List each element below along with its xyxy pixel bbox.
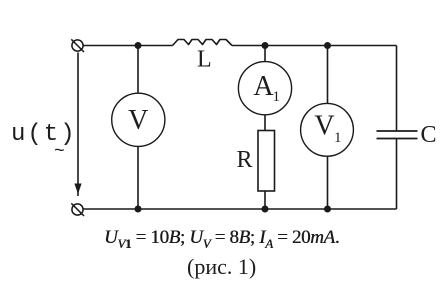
wire right edge upper (396, 46, 398, 132)
node C1 (top of V1 branch) (324, 42, 331, 49)
wire V1 branch lower (327, 156, 329, 209)
svg-text:R: R (237, 147, 253, 173)
label u(t) source voltage (11, 121, 77, 148)
capacitor C (377, 131, 418, 139)
svg-text:L: L (197, 47, 212, 73)
node A (top of V branch) (135, 42, 142, 49)
wire top: inductor to right corner (232, 45, 397, 47)
svg-text:V: V (128, 105, 148, 136)
node E (bottom of R branch) (262, 206, 269, 213)
wire bottom (83, 208, 396, 210)
wire A1 to resistor (264, 115, 266, 131)
node D (bottom of V branch) (135, 206, 142, 213)
terminal top-left (71, 39, 84, 52)
voltmeter V (112, 93, 165, 146)
svg-text:V: V (314, 111, 334, 142)
label tilde (AC) (54, 142, 65, 162)
wire resistor to bottom (264, 191, 266, 209)
equation U_V1 = 10B; U_V = 8B; I_A = 20mA. (104, 227, 339, 252)
svg-text:A: A (253, 71, 274, 102)
terminal bottom-left (71, 203, 84, 216)
wire right edge lower (396, 139, 398, 210)
ammeter A1 (238, 62, 291, 115)
wire V branch upper (137, 46, 139, 94)
wire V branch lower (137, 146, 139, 209)
wire V1 branch upper (327, 46, 329, 104)
source arrow (u(t) direction) (74, 53, 81, 197)
wire top: terminal to inductor (83, 45, 172, 47)
inductor L (173, 40, 233, 46)
svg-text:1: 1 (334, 130, 342, 146)
node F (bottom of V1 branch) (324, 206, 331, 213)
svg-text:1: 1 (273, 89, 281, 105)
node B (top of A1 branch) (262, 42, 269, 49)
svg-text:C: C (421, 122, 437, 148)
voltmeter V1 (301, 103, 354, 156)
resistor R (258, 131, 275, 192)
wire A1 branch upper (264, 46, 266, 62)
caption (рис. 1) (187, 254, 256, 280)
